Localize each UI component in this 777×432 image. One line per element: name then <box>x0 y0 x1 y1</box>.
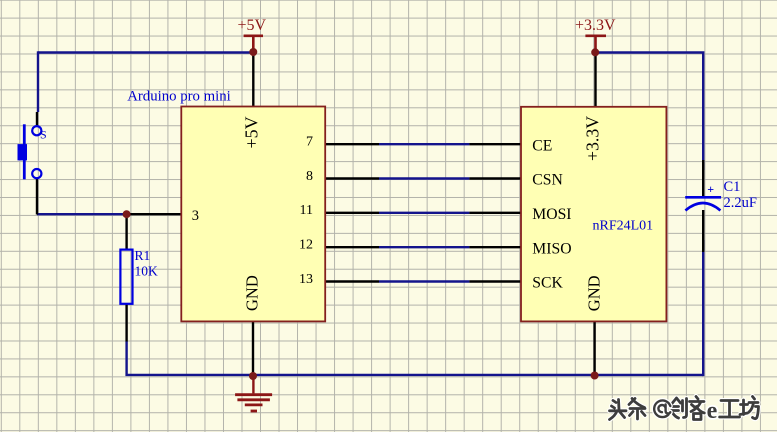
svg-text:+3.3V: +3.3V <box>575 17 616 34</box>
wire left vertical down to switch <box>37 51 39 112</box>
junction dot at nRF24L01 GND node <box>591 372 599 380</box>
pin line: nRF24L01 CSN stub <box>469 177 521 179</box>
pin line: nRF24L01 MOSI stub <box>469 212 521 214</box>
svg-text:GND: GND <box>585 275 604 311</box>
svg-text:GND: GND <box>243 275 262 311</box>
junction dot at +5V node <box>249 48 257 56</box>
svg-text:R1: R1 <box>135 248 151 263</box>
capacitor C1 <box>685 160 757 252</box>
svg-text:SCK: SCK <box>532 275 563 292</box>
svg-text:+: + <box>707 182 714 196</box>
junction dot at Arduino GND node <box>249 372 257 380</box>
pin line: Arduino GND pin (bottom) <box>252 321 254 376</box>
svg-text:e: e <box>707 398 718 424</box>
pin line: nRF24L01 +3.3V pin (top) <box>594 52 596 106</box>
svg-text:13: 13 <box>299 272 313 287</box>
wire +5V junction to left <box>38 51 253 53</box>
wire pin11 to MOSI <box>379 212 469 214</box>
power symbol +5V <box>238 17 267 52</box>
pin line: Arduino pin 7 stub <box>325 143 379 145</box>
svg-text:2.2uF: 2.2uF <box>724 195 757 211</box>
wire switch bottom to pin3 junction <box>37 213 127 215</box>
svg-text:Arduino pro mini: Arduino pro mini <box>127 88 231 104</box>
svg-text:CSN: CSN <box>532 172 563 189</box>
svg-text:nRF24L01: nRF24L01 <box>593 219 654 234</box>
svg-text:+5V: +5V <box>242 116 262 148</box>
svg-text:CE: CE <box>532 137 552 154</box>
svg-text:3: 3 <box>192 208 199 224</box>
svg-text:+3.3V: +3.3V <box>583 116 603 161</box>
pin line: Arduino pin 12 stub <box>325 246 379 248</box>
pin line: nRF24L01 CE stub <box>469 143 521 145</box>
ground symbol <box>235 376 272 411</box>
wire pin13 to SCK <box>379 280 469 282</box>
power symbol +3.3V <box>575 17 616 52</box>
svg-text:10K: 10K <box>135 264 159 279</box>
svg-text:12: 12 <box>299 238 313 253</box>
pin line: nRF24L01 SCK stub <box>469 280 521 282</box>
pin line: nRF24L01 MISO stub <box>469 246 521 248</box>
wire pin7 to CE <box>379 143 469 145</box>
wire +3.3V junction to capacitor C1 <box>595 51 703 170</box>
svg-text:11: 11 <box>300 203 313 218</box>
pin line: nRF24L01 GND pin (bottom) <box>593 321 595 375</box>
svg-text:S: S <box>40 128 47 142</box>
svg-text:7: 7 <box>306 135 313 150</box>
svg-text:8: 8 <box>306 169 313 184</box>
IC U2 nRF24L01 body <box>521 107 666 322</box>
pin line: Arduino pin 13 stub <box>325 280 379 282</box>
IC U1 Arduino pro mini body <box>127 88 325 321</box>
wire pin8 to CSN <box>379 177 469 179</box>
wire capacitor C1 bottom to ground bus <box>702 240 704 376</box>
pin line: Arduino pin 3 (left) <box>127 213 182 215</box>
junction dot at pin3/R1 node <box>123 210 131 218</box>
pin line: Arduino +5V pin (top) <box>252 52 254 107</box>
wire pin12 to MISO <box>379 246 469 248</box>
pin line: Arduino pin 11 stub <box>325 212 379 214</box>
svg-text:MISO: MISO <box>532 240 571 257</box>
watermark 头条@创客e工坊 <box>610 397 759 425</box>
svg-text:MOSI: MOSI <box>532 206 571 223</box>
svg-text:+5V: +5V <box>238 17 267 34</box>
pin line: Arduino pin 8 stub <box>325 177 379 179</box>
junction dot at +3.3V node <box>591 48 599 56</box>
wire bottom ground bus <box>125 341 703 375</box>
svg-text:C1: C1 <box>724 179 741 195</box>
switch S1 (push button) <box>18 112 47 215</box>
resistor R1 <box>120 215 158 342</box>
